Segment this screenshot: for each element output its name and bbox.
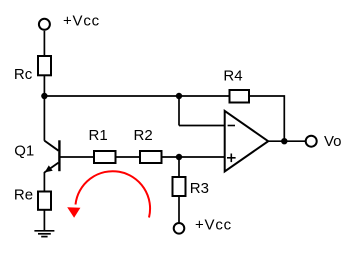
svg-text:Q1: Q1 [14, 143, 34, 160]
wire top horizontal to R4 [44, 95, 229, 97]
Vo terminal [306, 136, 317, 147]
node collector junction [41, 93, 47, 99]
wire node down to R3 [178, 157, 180, 177]
svg-text:Vo: Vo [324, 133, 342, 150]
feedback loop arrow (red) [67, 171, 150, 218]
wire R3 to bottom +Vcc terminal [178, 196, 180, 223]
wire R4 to output corner [249, 96, 284, 141]
wire op-amp output [268, 140, 306, 142]
wire minus branch horizontal [179, 125, 225, 127]
ground [34, 231, 54, 237]
svg-text:R1: R1 [89, 127, 108, 144]
transistor Q1 [44, 140, 59, 172]
resistor Rc [38, 56, 51, 75]
svg-text:Rc: Rc [14, 66, 33, 83]
wire R2 to op-amp plus input [162, 156, 225, 158]
wire Re to ground [43, 210, 45, 231]
wire node to collector [43, 96, 45, 141]
svg-text:Re: Re [14, 186, 33, 203]
svg-text:+Vcc: +Vcc [63, 13, 100, 30]
node plus-input junction [176, 154, 182, 160]
svg-text:R4: R4 [223, 67, 242, 84]
resistor Re [38, 192, 51, 210]
resistor R4 [230, 90, 250, 103]
+Vcc terminal (bottom) [174, 223, 185, 234]
wire base lead [61, 156, 95, 158]
op-amp U1 [225, 111, 269, 172]
+Vcc terminal (top) [39, 19, 50, 30]
resistor R1 [94, 151, 116, 163]
svg-text:R3: R3 [190, 180, 209, 197]
svg-text:+Vcc: +Vcc [195, 216, 232, 233]
node top junction to minus branch [176, 93, 182, 99]
wire Rc to collector node [43, 75, 45, 96]
svg-text:R2: R2 [134, 127, 153, 144]
wire emitter down [43, 172, 45, 192]
resistor R2 [140, 151, 162, 163]
wire minus branch vertical [178, 96, 180, 126]
wire terminal to Rc [43, 31, 45, 56]
resistor R3 [173, 177, 186, 196]
wire between R1 and R2 [116, 156, 141, 158]
node output junction [281, 138, 287, 144]
